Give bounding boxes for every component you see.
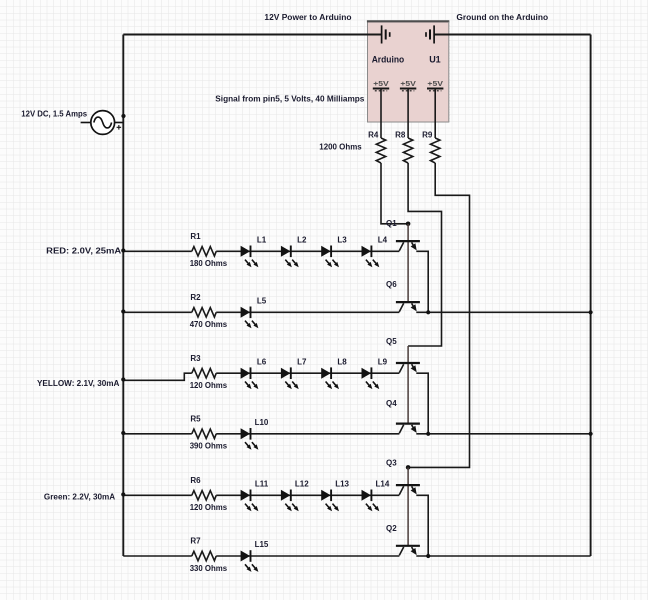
svg-text:+5V: +5V (400, 81, 416, 88)
LED L13 (321, 490, 331, 501)
wire Q3 emitter drop to next row (416, 495, 428, 556)
wire Q6 emitter to right rail (416, 311, 590, 313)
wire row 6 from left rail to R7 (123, 555, 192, 557)
wire yellow row from rail with jog (123, 373, 192, 380)
svg-text:L1: L1 (257, 236, 267, 245)
svg-text:390 Ohms: 390 Ohms (190, 442, 228, 451)
LED L9 (362, 368, 372, 379)
LED L14 (362, 490, 372, 501)
svg-text:R7: R7 (190, 537, 201, 546)
LED L6 (241, 368, 251, 379)
svg-text:R6: R6 (190, 476, 201, 485)
junction row 5 on left rail (121, 492, 125, 496)
svg-text:330 Ohms: 330 Ohms (190, 564, 228, 573)
resistor R9 (431, 138, 440, 163)
svg-text:Q6: Q6 (386, 280, 397, 289)
junction Q1 emitter / row 2 (426, 310, 430, 314)
wire row 4 from R5 through LEDs to transistor collector (216, 433, 399, 435)
svg-text:U1: U1 (429, 54, 441, 64)
junction row 1 on left rail (121, 248, 125, 252)
transistor Q6 (396, 302, 420, 312)
svg-text:YELLOW: 2.1V, 30mA: YELLOW: 2.1V, 30mA (37, 379, 120, 388)
svg-text:Q5: Q5 (386, 337, 397, 346)
wire row 1 from left rail to R1 (123, 250, 192, 252)
wire right ground rail (590, 35, 592, 557)
svg-text:L14: L14 (376, 480, 390, 489)
svg-text:L2: L2 (297, 236, 307, 245)
svg-text:Ground on the Arduino: Ground on the Arduino (456, 13, 548, 22)
wire Arduino pin2 to R8 (407, 89, 409, 138)
wire ground from battery to right rail (434, 34, 591, 36)
wire 12V from source top rail to battery (123, 34, 381, 36)
svg-text:R8: R8 (395, 130, 406, 139)
wire row 6 from R7 through LEDs to transistor collector (216, 555, 399, 557)
wire Arduino pin1 to R4 (380, 89, 382, 138)
svg-text:120 Ohms: 120 Ohms (190, 381, 228, 390)
wire row 2 from left rail to R2 (123, 311, 192, 313)
resistor R6 (192, 491, 216, 500)
svg-text:+5V: +5V (427, 81, 443, 88)
transistor Q1 (396, 241, 420, 251)
svg-text:L12: L12 (295, 480, 309, 489)
svg-text:L9: L9 (378, 357, 388, 366)
svg-text:R5: R5 (190, 414, 201, 423)
wire R9 to Q3/Q2 base node (408, 163, 469, 467)
svg-text:Signal from pin5, 5 Volts, 40: Signal from pin5, 5 Volts, 40 Milliamps (215, 95, 365, 104)
resistor R8 (403, 138, 412, 163)
svg-text:L7: L7 (297, 357, 307, 366)
svg-text:RED: 2.0V, 25mA: RED: 2.0V, 25mA (46, 247, 121, 256)
svg-text:470 Ohms: 470 Ohms (190, 320, 228, 329)
junction source to left rail (121, 114, 125, 118)
wire R4 to Q1/Q6 base node (381, 163, 408, 224)
LED L12 (281, 490, 291, 501)
wire base node to Q5 and Q4 bases (407, 346, 409, 424)
svg-text:R2: R2 (190, 293, 201, 302)
resistor R2 (192, 308, 216, 317)
junction row 3 on left rail (121, 377, 125, 381)
LED L5 (241, 307, 251, 318)
svg-text:12V DC, 1.5 Amps: 12V DC, 1.5 Amps (21, 109, 87, 118)
source V1 12V DC 1.5 Amps (81, 111, 124, 135)
junction row 2 on left rail (121, 309, 125, 313)
junction row 4 on left rail (121, 431, 125, 435)
svg-text:Arduino: Arduino (372, 54, 405, 64)
svg-text:L8: L8 (337, 357, 347, 366)
svg-text:R4: R4 (368, 130, 379, 139)
power flag +5V pin 2 (400, 81, 416, 91)
junction row 4 / right rail (589, 432, 593, 436)
svg-text:Green: 2.2V, 30mA: Green: 2.2V, 30mA (44, 493, 116, 502)
svg-text:L3: L3 (337, 236, 347, 245)
svg-text:Q1: Q1 (386, 219, 397, 228)
wire row 5 from left rail to R6 (123, 494, 192, 496)
junction base node Q3/Q2 (406, 465, 411, 470)
svg-text:L10: L10 (255, 418, 269, 427)
battery terminal right (ground) (426, 25, 434, 43)
svg-text:180 Ohms: 180 Ohms (190, 259, 228, 268)
svg-text:1200 Ohms: 1200 Ohms (319, 142, 362, 151)
LED L3 (321, 246, 331, 257)
LED L4 (362, 246, 372, 257)
svg-text:L11: L11 (255, 480, 269, 489)
svg-text:L13: L13 (335, 480, 349, 489)
LED L8 (321, 368, 331, 379)
resistor R7 (192, 551, 216, 560)
wire left supply rail (122, 35, 124, 557)
transistor Q3 (396, 485, 420, 495)
svg-text:L5: L5 (257, 297, 267, 306)
junction row 2 / right rail (589, 310, 593, 314)
wire Q5 emitter drop to next row (416, 373, 428, 434)
svg-text:Q2: Q2 (386, 524, 397, 533)
svg-text:120 Ohms: 120 Ohms (190, 503, 228, 512)
junction Q3 emitter / row 6 (426, 554, 430, 558)
LED L11 (241, 490, 251, 501)
svg-text:R3: R3 (190, 354, 201, 363)
svg-text:Q3: Q3 (386, 459, 397, 468)
wire row 1 from R1 through LEDs to transistor collector (216, 250, 399, 252)
power flag +5V pin 3 (427, 81, 443, 91)
junction Q5 emitter / row 4 (426, 432, 430, 436)
wire row 4 from left rail to R5 (123, 433, 192, 435)
wire Q4 emitter to right rail (416, 433, 590, 435)
wire row 2 from R2 through LEDs to transistor collector (216, 311, 399, 313)
svg-text:L4: L4 (378, 236, 388, 245)
transistor Q5 (396, 363, 420, 373)
wire Q1 emitter drop to next row (416, 251, 428, 312)
LED L7 (281, 368, 291, 379)
wire row 5 from R6 through LEDs to transistor collector (216, 494, 399, 496)
resistor R3 (192, 369, 216, 378)
wire Q2 emitter to right rail (416, 555, 590, 557)
wire R8 to Q5/Q4 base node (408, 163, 441, 346)
LED L15 (241, 551, 251, 562)
wire Arduino pin3 to R9 (434, 89, 436, 138)
svg-text:R9: R9 (422, 130, 433, 139)
resistor R4 (376, 138, 385, 163)
resistor R1 (192, 247, 216, 256)
wire row 3 from R3 through LEDs to transistor collector (216, 372, 399, 374)
LED L1 (241, 246, 251, 257)
Arduino module U1 (box) (367, 21, 449, 122)
junction base node Q1/Q6 (406, 222, 411, 227)
svg-text:+5V: +5V (373, 81, 389, 88)
LED L10 (241, 428, 251, 439)
LED L2 (281, 246, 291, 257)
svg-text:L6: L6 (257, 357, 267, 366)
resistor R5 (192, 429, 216, 438)
power flag +5V pin 1 (373, 81, 389, 91)
svg-text:R1: R1 (190, 232, 201, 241)
battery terminal left (12V power input) (382, 25, 390, 43)
wire base node to Q3 and Q2 bases (407, 467, 409, 545)
svg-text:L15: L15 (255, 540, 269, 549)
transistor Q4 (396, 424, 420, 434)
transistor Q2 (396, 546, 420, 556)
wire base node to Q1 and Q6 bases (407, 224, 409, 302)
svg-text:Q4: Q4 (386, 399, 397, 408)
svg-text:12V Power to Arduino: 12V Power to Arduino (264, 13, 351, 22)
